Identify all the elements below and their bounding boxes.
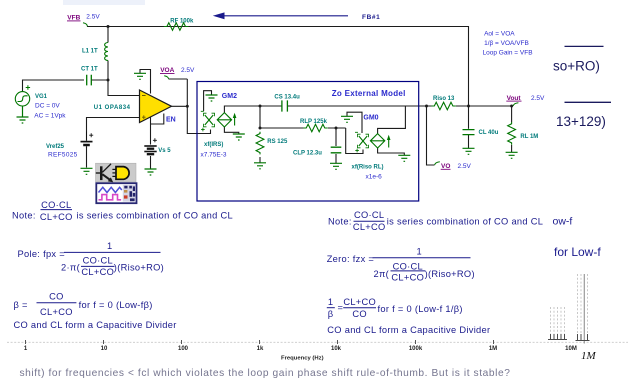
svg-text:1: 1 bbox=[417, 246, 422, 256]
svg-text:for f = 0 (Low-fβ): for f = 0 (Low-fβ) bbox=[79, 300, 153, 310]
wire CT right to junction bbox=[92, 79, 109, 81]
svg-text:CO and CL form a Capacitive Di: CO and CL form a Capacitive Divider bbox=[14, 320, 177, 330]
svg-text:2·π(: 2·π( bbox=[61, 263, 81, 273]
capacitor CS 13.4u bbox=[282, 100, 288, 111]
battery Vref25 bbox=[81, 132, 94, 148]
FB#1 feedback arrow bbox=[213, 12, 348, 19]
GM2 arrow bbox=[234, 116, 236, 126]
capacitor CL 40u bbox=[463, 130, 475, 135]
wire GM0 diamond bottom to ground bbox=[378, 148, 405, 155]
wire GM0 X minus to ground bbox=[347, 112, 362, 133]
svg-text:13+129): 13+129) bbox=[556, 114, 606, 129]
wire VOA vertical down into box bbox=[187, 79, 210, 134]
svg-text:CS 13.4u: CS 13.4u bbox=[274, 95, 300, 101]
V1 ground bbox=[17, 106, 29, 123]
svg-text:EN: EN bbox=[166, 116, 176, 123]
svg-text:1k: 1k bbox=[257, 346, 264, 352]
RL ground bbox=[506, 152, 518, 158]
svg-text:xf(Riso RL): xf(Riso RL) bbox=[352, 164, 384, 170]
svg-text:CO and CL form a Capacitive Di: CO and CL form a Capacitive Divider bbox=[327, 325, 490, 335]
svg-text:Loop Gain = VFB: Loop Gain = VFB bbox=[483, 50, 533, 57]
svg-text:CL 40u: CL 40u bbox=[479, 130, 499, 136]
svg-text:)(Riso+RO): )(Riso+RO) bbox=[114, 263, 164, 273]
wire GM2 diamond top to rail A bbox=[224, 106, 281, 113]
wire CLP drop bbox=[335, 128, 337, 146]
svg-text:so+RO): so+RO) bbox=[553, 59, 600, 74]
wire Vref battery to ground bbox=[86, 147, 88, 168]
svg-text:100k: 100k bbox=[409, 346, 423, 352]
wire L1 lead upper bbox=[107, 27, 109, 43]
svg-text:RS 125: RS 125 bbox=[267, 139, 288, 145]
svg-text:1M: 1M bbox=[489, 346, 497, 352]
wire Vs battery to ground bbox=[150, 156, 152, 169]
junction rail B at RS bbox=[259, 127, 262, 130]
logo scope triangle wave bbox=[99, 187, 122, 192]
svg-text:10: 10 bbox=[101, 346, 108, 352]
svg-text:Vs 5: Vs 5 bbox=[158, 148, 171, 154]
svg-text:CO·CL: CO·CL bbox=[83, 255, 113, 265]
node connector VOA bbox=[164, 76, 168, 79]
wire RS to ground bbox=[259, 157, 261, 163]
svg-text:U1 OPA834: U1 OPA834 bbox=[94, 105, 131, 111]
wire rail A from CS to box exit and Riso bbox=[288, 105, 433, 107]
opamp ground (V+) bbox=[134, 73, 146, 79]
junction rail B at CLP bbox=[335, 127, 338, 130]
GM2 X port bbox=[205, 115, 213, 125]
wire CLP to ground bbox=[335, 154, 337, 163]
node connector VO bbox=[435, 162, 440, 165]
svg-text:CL+CO: CL+CO bbox=[81, 267, 114, 277]
svg-text:Zero: fzx =: Zero: fzx = bbox=[327, 254, 374, 264]
wire VOA node hook to vertical bbox=[169, 78, 188, 80]
frequency axis line bbox=[7, 341, 628, 343]
svg-text:FB#1: FB#1 bbox=[362, 14, 380, 21]
junction at L1 top / VFB rail bbox=[107, 25, 110, 28]
resistor RF 100k bbox=[164, 23, 189, 31]
source V1 circle bbox=[15, 92, 29, 106]
svg-text:1: 1 bbox=[107, 241, 112, 251]
svg-text:RF 100k: RF 100k bbox=[170, 18, 194, 24]
GM0 output ground bbox=[398, 155, 410, 161]
junction at CL bbox=[467, 105, 470, 108]
svg-text:Riso 13: Riso 13 bbox=[433, 96, 455, 102]
svg-text:GM0: GM0 bbox=[363, 114, 378, 121]
junction at RL / Vout bbox=[510, 105, 513, 108]
svg-text:CL+CO: CL+CO bbox=[391, 273, 424, 283]
svg-text:AC = 1Vpk: AC = 1Vpk bbox=[34, 112, 66, 119]
resistor RS 125 bbox=[256, 132, 264, 155]
V1 plus sign bbox=[26, 85, 30, 89]
GM2 output ground bbox=[233, 134, 245, 140]
RS ground bbox=[254, 163, 266, 169]
svg-text:REF5025: REF5025 bbox=[48, 152, 78, 159]
svg-text:1: 1 bbox=[328, 297, 333, 307]
GM0 diamond bbox=[370, 134, 384, 148]
right edge cut formula 2 : fraction bar bbox=[565, 101, 612, 103]
svg-text:β =: β = bbox=[14, 300, 28, 310]
wire Riso right to Vout connector bbox=[456, 105, 513, 107]
junction rail A to rail B drop bbox=[259, 105, 262, 108]
dashed cursor cluster 2 near 1M marker bbox=[578, 274, 588, 338]
svg-text:Pole: fpx =: Pole: fpx = bbox=[18, 249, 66, 259]
logo top icon background bbox=[96, 163, 137, 182]
svg-text:CL+CO: CL+CO bbox=[40, 212, 73, 222]
wire opamp output to junction bbox=[171, 105, 187, 107]
svg-text:1/β = VOA/VFB: 1/β = VOA/VFB bbox=[484, 40, 529, 47]
svg-text:1M: 1M bbox=[581, 350, 597, 362]
svg-text:VG1: VG1 bbox=[35, 94, 48, 100]
axis decade ticks bbox=[26, 340, 494, 344]
logo scope icon frame bbox=[96, 183, 136, 203]
svg-text:Aol = VOA: Aol = VOA bbox=[484, 31, 515, 38]
svg-text:for Low-f: for Low-f bbox=[554, 245, 601, 259]
svg-text:2.5V: 2.5V bbox=[86, 14, 100, 21]
svg-text:)(Riso+RO): )(Riso+RO) bbox=[425, 269, 475, 279]
svg-text:Note:: Note: bbox=[328, 217, 352, 227]
wire opamp V- pin to Vs battery bbox=[150, 117, 152, 145]
svg-text:GM2: GM2 bbox=[222, 93, 237, 100]
svg-text:β: β bbox=[328, 309, 334, 319]
logo transistor symbol bbox=[100, 166, 103, 180]
wire GM2 diamond bottom to ground bbox=[224, 127, 238, 134]
svg-text:Note:: Note: bbox=[12, 211, 36, 221]
wire CL drop bbox=[468, 106, 470, 129]
junction at op-amp output node VOA bbox=[186, 105, 189, 108]
GM0 input ground bbox=[341, 116, 353, 122]
svg-text:CL+CO: CL+CO bbox=[40, 307, 73, 317]
wire EN bracket bbox=[151, 114, 164, 125]
svg-text:CO·CL: CO·CL bbox=[354, 210, 384, 220]
Zo External Model box bbox=[197, 82, 419, 202]
axis decade labels bbox=[24, 346, 577, 352]
svg-text:CL+CO: CL+CO bbox=[353, 222, 386, 232]
resistor RL 1M bbox=[508, 122, 516, 145]
node connector Vout bbox=[513, 103, 518, 106]
wire GM2 X minus to ground bbox=[204, 91, 212, 111]
svg-text:RLP 125k: RLP 125k bbox=[300, 119, 328, 125]
svg-text:2.5V: 2.5V bbox=[458, 163, 472, 170]
svg-text:L1 1T: L1 1T bbox=[82, 48, 98, 54]
logo scope square wave bbox=[99, 195, 122, 200]
svg-text:2π(: 2π( bbox=[374, 269, 390, 279]
wire RL drop bbox=[511, 106, 513, 122]
svg-text:Frequency (Hz): Frequency (Hz) bbox=[281, 355, 324, 361]
logo AND gate bbox=[116, 167, 129, 180]
wire opamp V+ pin to ground bbox=[140, 70, 151, 94]
svg-text:x1e-6: x1e-6 bbox=[366, 173, 383, 180]
junction at L1 bottom / CT node bbox=[107, 79, 110, 82]
svg-text:CO: CO bbox=[352, 309, 367, 319]
wire RL to ground bbox=[511, 145, 513, 152]
svg-text:is series combination of CO an: is series combination of CO and CL bbox=[387, 217, 543, 227]
svg-text:2.5V: 2.5V bbox=[531, 95, 545, 102]
capacitor CLP 12.3u bbox=[331, 147, 342, 153]
svg-text:is series combination of CO an: is series combination of CO and CL bbox=[77, 211, 233, 221]
svg-text:x7.75E-3: x7.75E-3 bbox=[201, 151, 227, 158]
GM2 diamond bbox=[217, 113, 231, 127]
GM0 arrow bbox=[388, 138, 390, 148]
svg-text:shift) for frequencies < fcl w: shift) for frequencies < fcl which viola… bbox=[20, 368, 511, 379]
Vs5 ground bbox=[145, 169, 157, 175]
resistor RLP 125k bbox=[303, 124, 328, 132]
wire VO drop from rail A bbox=[427, 106, 435, 165]
wire GM0 X plus to CLP node bbox=[346, 128, 363, 154]
wire rail B left segment bbox=[260, 127, 305, 129]
svg-text:Vref25: Vref25 bbox=[46, 144, 65, 150]
GM0 X port bbox=[359, 136, 367, 146]
wire plus input from Vref bbox=[87, 118, 140, 132]
inductor L1 1T bbox=[105, 43, 108, 61]
right edge cut formula 1 : fraction bar bbox=[565, 45, 604, 47]
svg-text:CT 1T: CT 1T bbox=[81, 66, 98, 72]
wire junction down to minus input bbox=[108, 80, 140, 96]
svg-text:CO: CO bbox=[49, 292, 64, 302]
node connector VFB bbox=[83, 23, 87, 27]
capacitor CT 1T bbox=[87, 75, 92, 86]
GM2 input ground bbox=[206, 95, 218, 101]
svg-text:DC = 0V: DC = 0V bbox=[35, 103, 60, 110]
svg-text:2.5V: 2.5V bbox=[181, 67, 195, 74]
resistor Riso 13 bbox=[431, 102, 456, 110]
Vref25 ground bbox=[81, 168, 93, 174]
wire V1 up and right to CT bbox=[23, 80, 85, 92]
svg-text:CO·CL: CO·CL bbox=[41, 200, 71, 210]
op-amp U1 bbox=[140, 90, 172, 123]
dashed cursor cluster 1 near 10M bbox=[551, 307, 565, 338]
wire GM0 diamond top to rail A bbox=[378, 106, 406, 134]
junction node VO bbox=[425, 105, 428, 108]
svg-text:CO·CL: CO·CL bbox=[393, 261, 423, 271]
svg-text:Zo External Model: Zo External Model bbox=[332, 89, 406, 98]
svg-text:CLP 12.3u: CLP 12.3u bbox=[293, 151, 322, 157]
svg-text:100: 100 bbox=[178, 346, 189, 352]
CLP ground bbox=[330, 163, 342, 169]
svg-text:10k: 10k bbox=[331, 346, 342, 352]
svg-text:xf(IRS): xf(IRS) bbox=[204, 142, 223, 148]
svg-text:ow-f: ow-f bbox=[553, 216, 573, 228]
svg-text:RL 1M: RL 1M bbox=[520, 134, 538, 140]
wire rail A drop to rail B bbox=[259, 106, 261, 128]
battery Vs 5 bbox=[144, 138, 157, 154]
wire L1 lead lower bbox=[107, 61, 109, 81]
svg-text:10M: 10M bbox=[565, 346, 577, 352]
logo scope right panel bbox=[123, 185, 136, 202]
wire rail B right segment bbox=[328, 127, 346, 129]
wire VFB top rail to right vertical bbox=[87, 27, 469, 107]
CL ground bbox=[463, 148, 475, 154]
svg-text:CL+CO: CL+CO bbox=[343, 297, 376, 307]
wire CL to ground bbox=[468, 135, 470, 148]
svg-text:for f = 0 (Low-f 1/β): for f = 0 (Low-f 1/β) bbox=[378, 304, 463, 314]
